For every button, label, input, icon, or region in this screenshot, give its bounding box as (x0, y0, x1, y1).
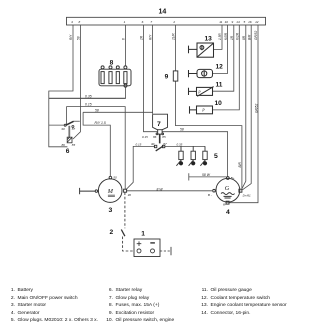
svg-text:87: 87 (163, 142, 167, 146)
svg-text:GR/52: GR/52 (254, 31, 258, 40)
svg-text:6: 6 (66, 148, 70, 155)
svg-text:R/Y: R/Y (69, 34, 73, 40)
svg-text:14: 14 (159, 9, 167, 16)
svg-text:5: 5 (244, 20, 246, 24)
svg-text:0.35: 0.35 (85, 94, 92, 98)
svg-text:B+: B+ (231, 176, 235, 180)
svg-text:85: 85 (72, 143, 76, 147)
svg-text:11: 11 (219, 20, 222, 24)
svg-text:8: 8 (79, 20, 81, 24)
svg-text:D+/61: D+/61 (243, 194, 251, 198)
svg-text:B -: B - (208, 193, 212, 197)
svg-text:4: 4 (226, 209, 230, 216)
svg-text:2L/R: 2L/R (172, 33, 176, 41)
svg-text:1: 1 (141, 231, 145, 238)
svg-text:9: 9 (232, 20, 234, 24)
svg-text:8: 8 (110, 60, 114, 67)
svg-text:P: P (201, 109, 205, 113)
svg-text:58: 58 (95, 108, 99, 112)
svg-text:B/R: B/R (247, 34, 251, 40)
svg-text:2: 2 (172, 20, 175, 24)
svg-text:7: 7 (157, 121, 161, 128)
svg-text:B/R: B/R (238, 161, 242, 167)
svg-text:50: 50 (113, 175, 117, 179)
svg-text:12: 12 (255, 20, 259, 24)
svg-text:9: 9 (165, 73, 169, 80)
svg-text:4: 4 (71, 20, 73, 24)
svg-text:1: 1 (124, 20, 126, 24)
svg-text:6: 6 (142, 20, 144, 24)
svg-text:58 W: 58 W (202, 173, 211, 177)
svg-text:3: 3 (109, 207, 113, 214)
svg-text:58: 58 (180, 128, 184, 132)
svg-text:6: 6 (122, 38, 126, 40)
svg-text:0.15: 0.15 (142, 135, 148, 139)
svg-text:30: 30 (128, 193, 132, 197)
svg-text:2: 2 (110, 229, 114, 236)
svg-text:58: 58 (77, 36, 81, 40)
svg-text:14: 14 (236, 20, 240, 24)
svg-text:R/Y: R/Y (148, 34, 152, 40)
svg-text:11: 11 (216, 81, 223, 88)
svg-text:0.15: 0.15 (85, 103, 92, 107)
svg-text:8R: 8R (242, 35, 246, 40)
svg-text:13: 13 (205, 36, 213, 43)
svg-text:7: 7 (150, 20, 152, 24)
svg-text:G: G (225, 185, 230, 192)
svg-text:0.15: 0.15 (136, 142, 142, 146)
svg-text:86: 86 (153, 135, 157, 139)
svg-text:10: 10 (215, 100, 223, 107)
svg-text:85: 85 (162, 135, 166, 139)
svg-text:1R: 1R (230, 35, 234, 40)
svg-text:87: 87 (72, 127, 76, 131)
svg-text:GR/52: GR/52 (255, 104, 259, 113)
svg-text:30: 30 (151, 142, 155, 146)
svg-text:0.35: 0.35 (177, 142, 183, 146)
svg-text:12: 12 (216, 63, 224, 70)
svg-text:5: 5 (214, 153, 218, 160)
svg-text:16: 16 (248, 20, 252, 24)
svg-text:1.5R: 1.5R (218, 33, 222, 40)
svg-text:R/Y 1.5: R/Y 1.5 (95, 121, 106, 125)
svg-text:K/2R: K/2R (236, 32, 240, 40)
svg-text:8 W: 8 W (157, 187, 164, 191)
svg-text:K/5R: K/5R (224, 32, 228, 40)
svg-text:2R: 2R (140, 35, 144, 41)
svg-text:10: 10 (225, 20, 229, 24)
svg-text:M: M (107, 188, 114, 195)
svg-text:86: 86 (62, 143, 66, 147)
svg-text:30: 30 (61, 127, 65, 131)
